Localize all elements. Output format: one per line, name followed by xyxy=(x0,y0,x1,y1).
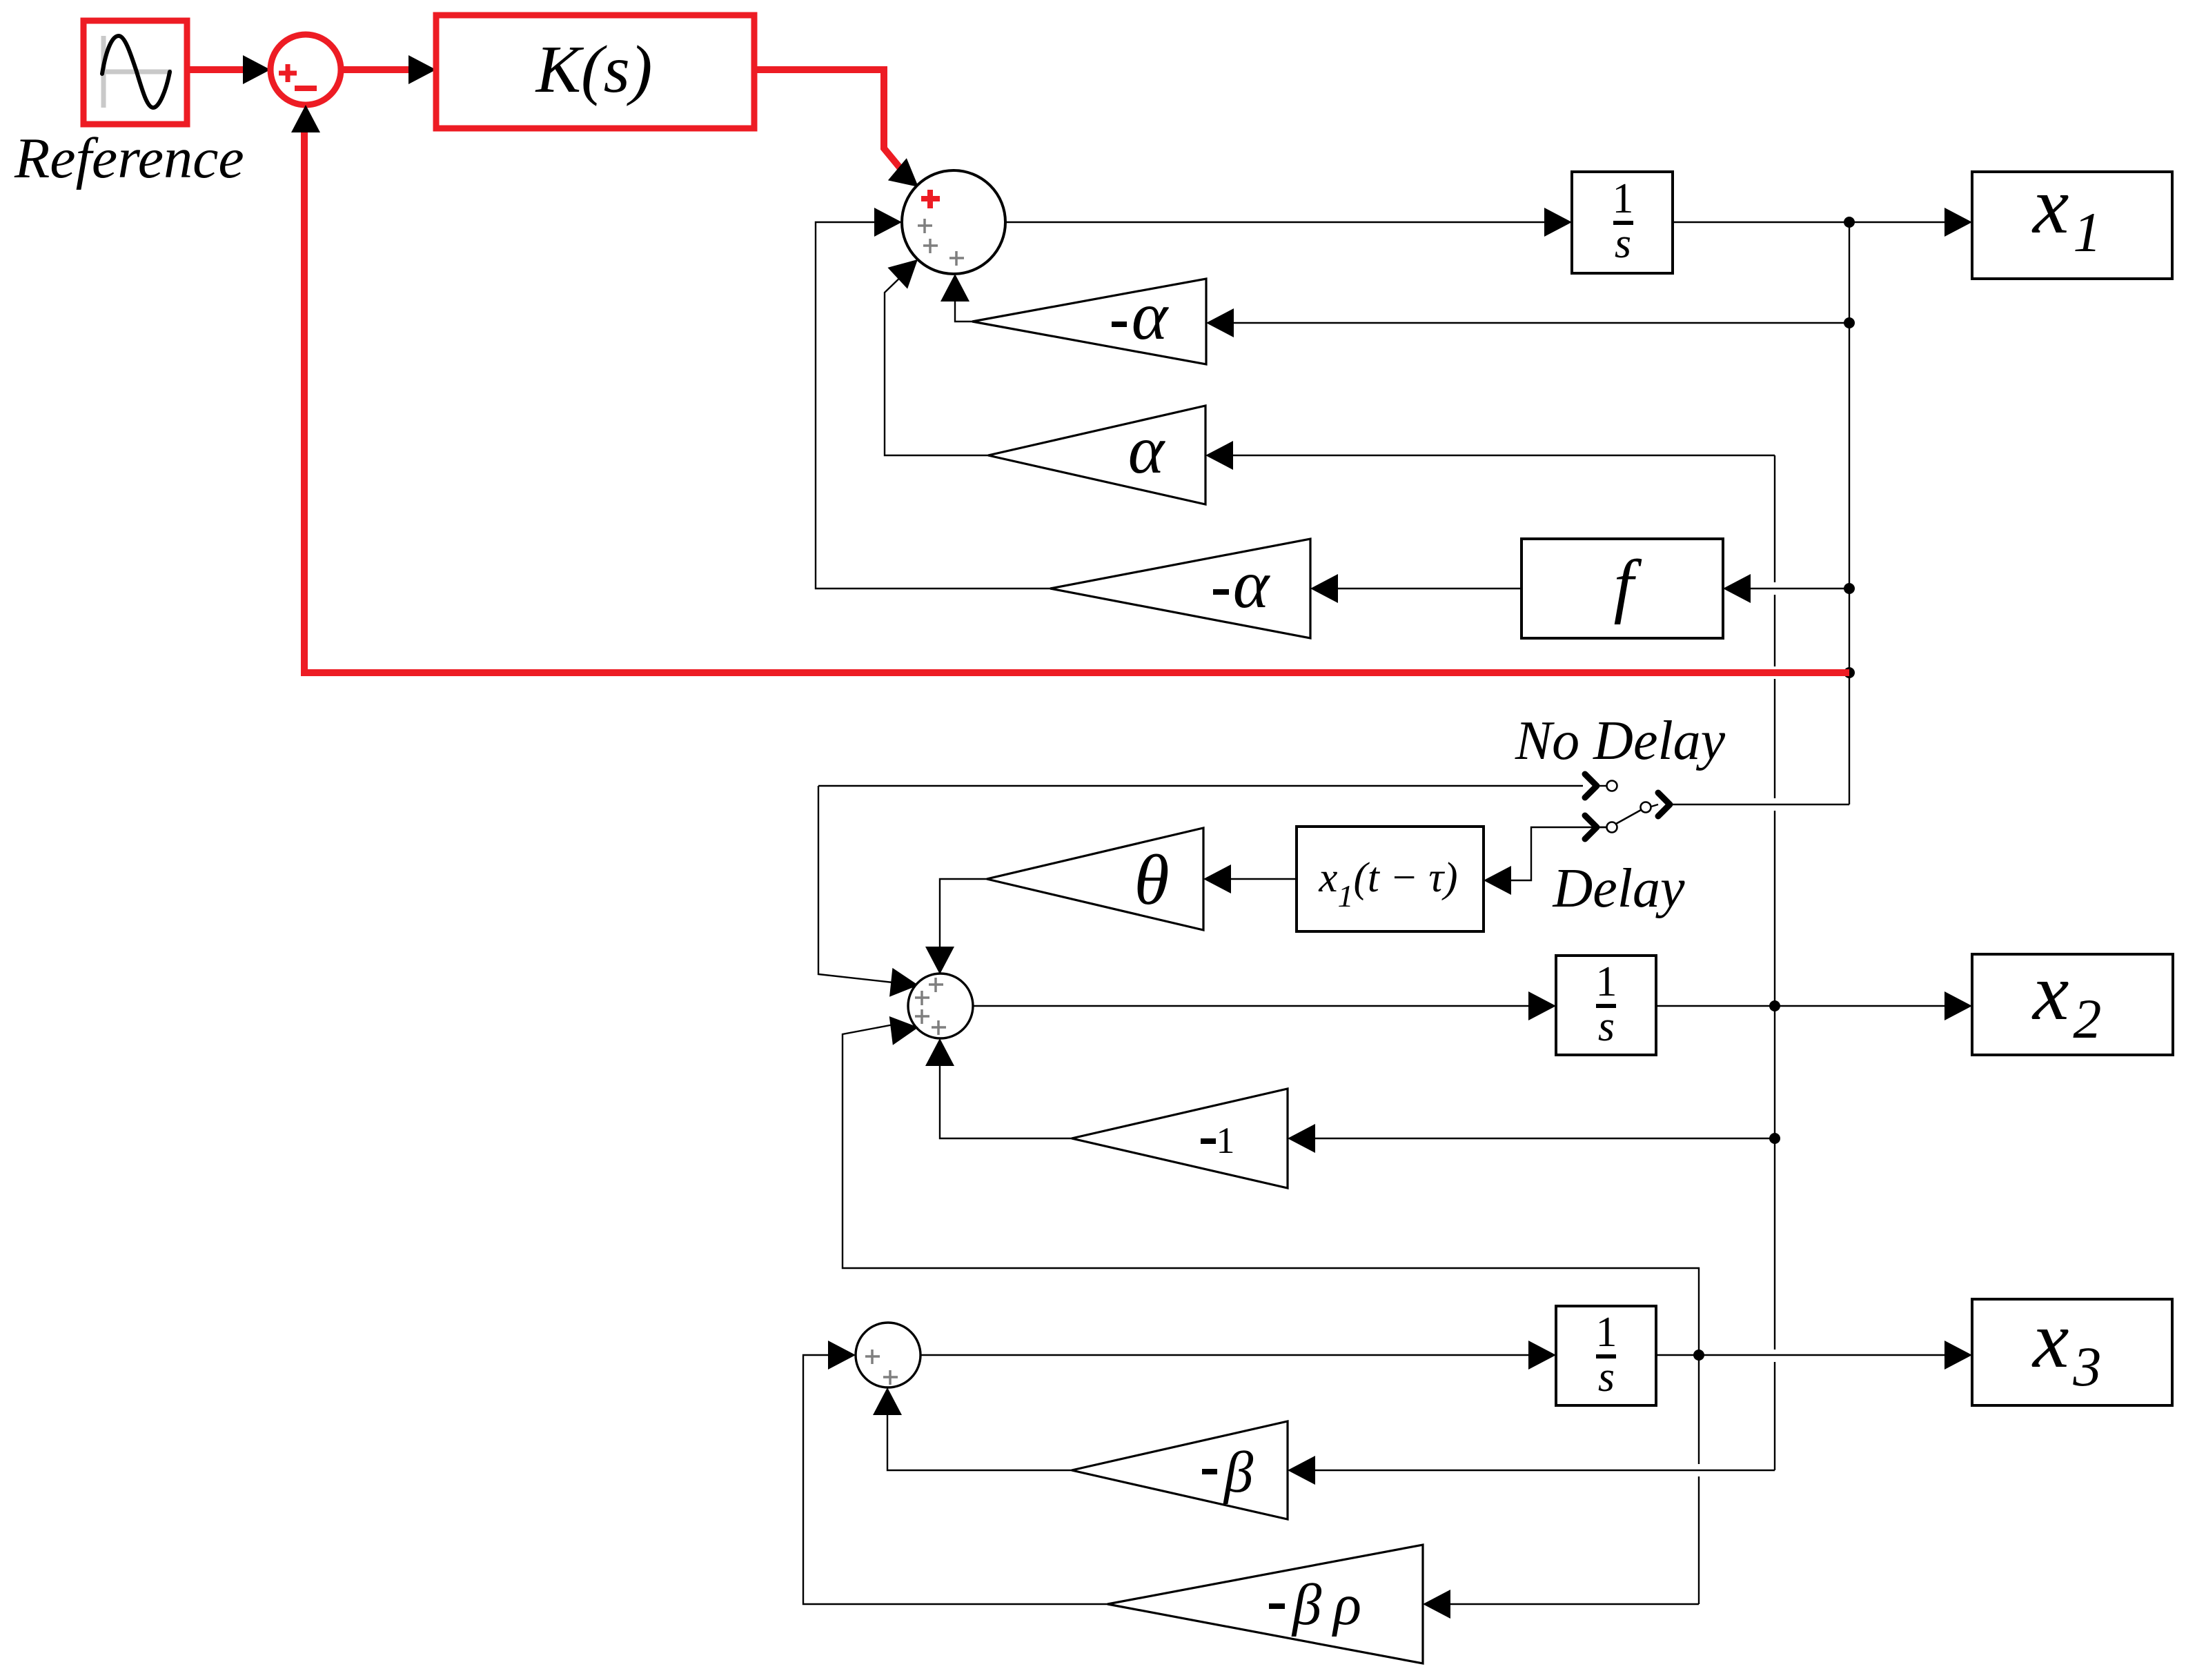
gain alpha row2 (triangle) xyxy=(988,406,1205,504)
wire red feedback x1 to sum1 (thick red) xyxy=(304,130,1849,673)
wire x1 tap to gain -alpha row1 xyxy=(1232,322,1849,324)
wire sum2 output to integrator 1 xyxy=(1005,221,1547,223)
switch common pole xyxy=(1641,802,1651,813)
wire sum3 output to integrator 2 xyxy=(973,1005,1531,1007)
reference source block (sine icon) xyxy=(83,21,187,124)
net x3 vertical down to -beta-rho row (with hop gap at -beta wire) xyxy=(1698,1355,1700,1464)
svg-text:Delay: Delay xyxy=(1552,858,1685,919)
node dot red feedback tap xyxy=(1844,667,1855,678)
gain -alpha row3 (triangle) xyxy=(1050,539,1310,638)
svg-text:1: 1 xyxy=(1596,1309,1617,1356)
wire reference to sum1 (red) xyxy=(187,66,246,73)
switch common chevron xyxy=(1658,793,1670,816)
wire alpha row2 output to sum2 lower-left xyxy=(885,273,988,455)
wire x3 net to gain -beta-rho xyxy=(1449,1603,1699,1605)
svg-text:β ρ: β ρ xyxy=(1291,1572,1361,1637)
node dot row1 tap xyxy=(1844,317,1855,328)
wire sum1 to K(s) (red) xyxy=(341,66,411,73)
delay block x1(t-tau) xyxy=(1297,827,1484,931)
net x1 vertical distribution wire xyxy=(1849,222,1850,804)
wire sum4 output to integrator 3 xyxy=(920,1354,1531,1356)
svg-text:θ: θ xyxy=(1134,840,1169,920)
svg-text:s: s xyxy=(1598,1354,1615,1401)
svg-text:s: s xyxy=(1615,220,1631,267)
svg-text:K(s): K(s) xyxy=(535,32,653,107)
wire x2 net to gain -beta xyxy=(1314,1470,1775,1471)
output block x1 xyxy=(1972,160,2172,279)
svg-text:α: α xyxy=(1233,546,1271,622)
wire -alpha row1 output to sum2 bottom xyxy=(955,300,972,322)
gain -beta-rho (triangle) xyxy=(1107,1545,1423,1663)
wire switch common to x1 net xyxy=(1673,804,1849,805)
gain theta (triangle) xyxy=(987,828,1203,930)
integrator block 1/s (x2) xyxy=(1556,956,1656,1055)
output block x2 xyxy=(1972,947,2173,1055)
svg-text:α: α xyxy=(1132,277,1170,354)
integrator block 1/s (x1) xyxy=(1572,172,1673,273)
wire theta output to sum3 top xyxy=(940,879,987,948)
wire integrator2 to x2 xyxy=(1656,1005,1947,1007)
wire -beta output to sum4 bottom xyxy=(887,1414,1072,1470)
wire no-delay into sum3 upper-left xyxy=(818,786,893,982)
svg-text:No Delay: No Delay xyxy=(1515,711,1726,771)
node dot -1 tap xyxy=(1769,1133,1780,1144)
wire -beta-rho output to sum4 left xyxy=(803,1355,1107,1604)
gain -1 (triangle) xyxy=(1072,1089,1288,1188)
node x3 junction dot xyxy=(1693,1350,1704,1361)
integrator block 1/s (x3) xyxy=(1556,1306,1656,1405)
wire delay block to gain theta xyxy=(1230,878,1297,880)
wire integrator1 to x1 xyxy=(1673,221,1947,223)
wire integrator3 to x3 xyxy=(1656,1354,1947,1356)
svg-text:1: 1 xyxy=(1596,958,1617,1005)
wire x1 tap to block f xyxy=(1749,588,1849,589)
summing junction S4 xyxy=(856,1323,920,1387)
gain -beta (triangle) xyxy=(1072,1421,1288,1519)
summing junction S1 (red) xyxy=(270,34,341,105)
svg-text:1: 1 xyxy=(1217,1120,1235,1161)
svg-text:s: s xyxy=(1598,1003,1615,1050)
wire -alpha row3 output to sum2 left xyxy=(816,222,1050,589)
net x2 vertical distribution wire (with hop gaps) xyxy=(1774,455,1775,582)
output block x3 xyxy=(1972,1294,2172,1405)
summing junction S3 xyxy=(908,974,973,1038)
svg-text:Reference: Reference xyxy=(14,126,244,190)
svg-text:α: α xyxy=(1128,411,1166,488)
wire -1 output to sum3 bottom xyxy=(940,1065,1072,1138)
block f xyxy=(1522,539,1723,638)
wire f to gain -alpha row3 xyxy=(1337,588,1522,589)
wire no-delay throw line xyxy=(818,785,1583,787)
wire x2 net to gain alpha row2 xyxy=(1232,455,1775,456)
summing junction S2 xyxy=(902,170,1005,274)
wire x3 coupling up and into sum3 lower-left xyxy=(843,1025,1699,1355)
node x1 junction dot xyxy=(1844,217,1855,228)
switch throw chevron (delay) xyxy=(1585,816,1597,839)
wire K(s) to sum2 (red) xyxy=(754,70,903,172)
switch arm bar xyxy=(1616,810,1641,824)
wire x2 tap to gain -1 xyxy=(1314,1138,1775,1139)
controller block K(s) xyxy=(436,15,754,128)
wire delay throw to delay block xyxy=(1510,827,1606,880)
switch throw chevron (no delay) xyxy=(1585,774,1597,798)
svg-text:1: 1 xyxy=(1613,175,1634,222)
node dot f tap xyxy=(1844,583,1855,594)
gain -alpha row1 (triangle) xyxy=(972,277,1206,364)
svg-text:β: β xyxy=(1223,1440,1254,1505)
node x2 junction dot xyxy=(1769,1000,1780,1011)
